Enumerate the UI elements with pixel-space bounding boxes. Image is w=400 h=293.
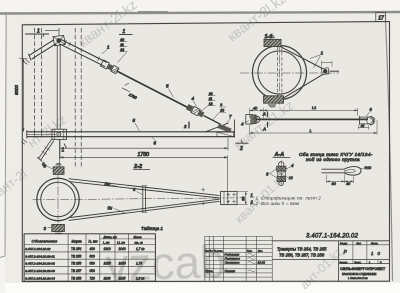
bolt axis [280, 161, 282, 186]
svg-text:1,8 кг: 1,8 кг [136, 276, 145, 280]
header sub split [100, 238, 156, 240]
bottom chord double line [69, 199, 220, 220]
svg-text:12: 12 [209, 102, 213, 106]
svg-text:2. Все швы h = 6мм: 2. Все швы h = 6мм [255, 201, 300, 206]
dim 40 under coupler [358, 127, 368, 129]
svg-text:ТВ 258: ТВ 258 [71, 276, 82, 280]
boom member [59, 40, 107, 67]
weld marks on chords [201, 188, 205, 206]
bottom clamp bolt [268, 105, 276, 107]
svg-text:Пров.: Пров. [205, 269, 213, 273]
traverse mid line [27, 133, 56, 135]
peak joint box [53, 35, 65, 45]
svg-text:Таблица 1: Таблица 1 [141, 226, 163, 231]
top chord double line [69, 179, 220, 198]
svg-text:90: 90 [242, 197, 246, 201]
apex mini dimension [322, 61, 333, 63]
svg-text:Норкин: Норкин [225, 269, 236, 273]
svg-text:Стадия: Стадия [340, 243, 347, 245]
svg-text:1135: 1135 [119, 276, 126, 280]
rod body [252, 118, 368, 120]
tie rod [117, 71, 187, 107]
svg-text:10: 10 [120, 38, 124, 42]
svg-text:3.407.1-164.20.02-04: 3.407.1-164.20.02-04 [25, 276, 55, 280]
svg-text:ной из одного прутка: ной из одного прутка [306, 156, 360, 162]
svg-text:530: 530 [90, 262, 96, 266]
svg-text:1060: 1060 [119, 262, 126, 266]
V band lower [283, 75, 323, 99]
ring outer circle [253, 46, 307, 100]
connector line from elevation [58, 140, 60, 167]
traverse top chord [27, 131, 235, 133]
svg-text:1,7 кг: 1,7 кг [136, 247, 145, 251]
svg-text:1. Спецификацию см. лист 2: 1. Спецификацию см. лист 2 [256, 195, 322, 200]
traverse bottom chord [27, 136, 235, 138]
knee brace [38, 139, 54, 160]
top clamp bolt [268, 36, 276, 37]
svg-text:А: А [262, 112, 266, 117]
svg-text:ТВ 256, ТВ 257, ТВ 258: ТВ 256, ТВ 257, ТВ 258 [279, 252, 325, 257]
brace end cap [37, 157, 42, 161]
vertical strut [57, 46, 60, 130]
eye loop [344, 167, 361, 176]
apex fitting [321, 68, 329, 75]
svg-text:1: 1 [251, 193, 253, 198]
svg-text:1: 1 [321, 51, 324, 57]
page number box [376, 13, 386, 22]
rod dimension tick [122, 83, 130, 92]
apex stub [330, 70, 340, 72]
top edge dark smudge [138, 11, 168, 14]
svg-text:Формат: Формат [340, 261, 348, 264]
eye bar top line [322, 168, 345, 170]
svg-text:Бланк: Бланк [355, 262, 361, 264]
svg-text:1108: 1108 [104, 276, 111, 280]
svg-text:г. Алма-Ата 2 км: г. Алма-Ата 2 км [348, 276, 368, 280]
eye bar bottom line [322, 172, 345, 174]
ring inner circle [41, 182, 75, 216]
svg-text:ТВ 255: ТВ 255 [71, 254, 82, 258]
svg-text:Обозначение: Обозначение [32, 239, 58, 243]
eye dims 80 40 [327, 180, 354, 182]
stadia list cells [339, 244, 390, 246]
svg-text:Масса: Масса [134, 235, 142, 239]
svg-text:5н: 5н [108, 206, 113, 211]
svg-text:9: 9 [220, 103, 222, 107]
svg-text:17: 17 [378, 16, 384, 22]
svg-text:400: 400 [90, 247, 96, 251]
apex plate [221, 191, 238, 204]
vertical centerline [57, 173, 59, 231]
main block outline [272, 240, 389, 242]
dim 90 right [237, 192, 248, 205]
bottom clamp block [264, 96, 284, 103]
svg-text:L1, мм: L1, мм [117, 240, 125, 244]
left clevis plate [246, 115, 253, 124]
svg-text:L: L [310, 128, 312, 133]
svg-text:ТВ 257: ТВ 257 [71, 269, 82, 273]
svg-text:R10: R10 [365, 166, 372, 170]
section line 1 right mark [119, 34, 133, 36]
svg-text:D, мм: D, мм [89, 239, 99, 243]
pole hidden edge left pair [34, 28, 36, 133]
svg-text:1780: 1780 [138, 152, 150, 158]
svg-text:Марка: Марка [72, 239, 82, 243]
svg-text:ТВ 256: ТВ 256 [71, 262, 82, 266]
svg-text:560: 560 [90, 269, 96, 273]
dimension line view 2-2 [60, 156, 228, 158]
left arm member [29, 40, 56, 59]
svg-text:L1: L1 [312, 106, 316, 110]
svg-text:3.407.1-164.20.02: 3.407.1-164.20.02 [306, 234, 359, 240]
svg-text:6000: 6000 [14, 85, 19, 95]
svg-text:12: 12 [289, 176, 293, 180]
svg-text:А: А [262, 127, 266, 132]
top dimension line 40 / L1 [250, 109, 358, 111]
vertical centerline [279, 41, 281, 105]
svg-text:Подп.: Подп. [247, 251, 253, 253]
page top edge [0, 12, 400, 14]
signature table grid [205, 236, 272, 277]
gusset at traverse tip [206, 120, 235, 138]
svg-text:2: 2 [239, 146, 243, 152]
bottom dimension L [250, 132, 378, 134]
bolt cross marks [227, 193, 236, 203]
left height dimension 6000 [22, 59, 24, 132]
pole hidden lines [277, 47, 282, 100]
table horizontals [24, 245, 155, 274]
lower coupling turnbuckle [186, 104, 205, 118]
svg-text:12: 12 [120, 48, 124, 52]
page right edge [386, 22, 393, 282]
left arm end cap [28, 54, 31, 61]
pole hidden edge right pair [74, 28, 76, 168]
table outer box [24, 234, 155, 281]
section 2 mark right [236, 142, 249, 144]
svg-text:тр., кг: тр., кг [135, 241, 144, 244]
traverse-pole joint [52, 129, 67, 139]
svg-text:20.02: 20.02 [257, 261, 266, 265]
svg-text:1310: 1310 [104, 247, 111, 251]
svg-text:Длина, мм: Длина, мм [103, 235, 117, 239]
vertical brace [143, 186, 146, 212]
svg-text:L, мм: L, мм [103, 240, 110, 244]
svg-text:Степанов: Степанов [225, 261, 240, 265]
svg-text:11: 11 [120, 43, 124, 47]
svg-text:№ докум.: № докум. [214, 250, 223, 253]
svg-text:Траверсы ТВ 254, ТВ 255: Траверсы ТВ 254, ТВ 255 [277, 247, 327, 252]
svg-text:500: 500 [90, 254, 96, 258]
rod lower end [204, 116, 221, 125]
svg-text:5т: 5т [105, 182, 111, 187]
svg-text:11: 11 [209, 97, 213, 101]
upper coupling hardware [100, 60, 119, 74]
table verticals [68, 234, 128, 281]
svg-text:1,76: 1,76 [136, 262, 142, 266]
svg-text:3.407.1-164.20.02-01: 3.407.1-164.20.02-01 [25, 254, 55, 258]
svg-text:40: 40 [361, 124, 365, 128]
top clamp block [53, 167, 64, 175]
svg-text:710: 710 [90, 276, 96, 280]
peak top projection line [45, 28, 59, 36]
bottom clamp block [52, 224, 65, 231]
horizontal centerline [33, 198, 244, 200]
svg-text:3.407.1-164.20.02: 3.407.1-164.20.02 [25, 247, 50, 251]
format row [353, 260, 378, 264]
svg-text:Лст: Лст [210, 251, 213, 253]
dimension 1780 main [60, 147, 228, 149]
svg-text:КАЗАХСКОЕ ОТДЕЛЕНИЕ: КАЗАХСКОЕ ОТДЕЛЕНИЕ [342, 272, 377, 276]
svg-text:3.407.1-164.20.02-03: 3.407.1-164.20.02-03 [25, 269, 55, 273]
svg-text:13: 13 [220, 108, 224, 112]
section 2 mark upper [188, 122, 190, 129]
svg-text:Лист: Лист [357, 243, 362, 245]
page left edge [0, 14, 6, 258]
bolt stack [279, 162, 284, 167]
section line 1 left mark [25, 33, 49, 35]
top clamp block [264, 39, 281, 46]
svg-text:2: 2 [183, 124, 187, 129]
svg-text:1: 1 [123, 29, 126, 35]
svg-text:1: 1 [37, 29, 40, 35]
horizontal centerline [240, 72, 339, 74]
svg-text:1040: 1040 [119, 247, 126, 251]
left nut hatched [251, 115, 256, 124]
rod end fitting [359, 116, 361, 125]
clevis eye [254, 116, 260, 122]
svg-text:10: 10 [209, 92, 213, 96]
boom segment ticks [64, 40, 99, 61]
ring outer circle [37, 178, 79, 220]
ring inner circle [258, 51, 301, 94]
svg-text:ТВ 254: ТВ 254 [71, 247, 82, 251]
section A-A cut marks [267, 112, 269, 128]
traverse left end cap [26, 130, 28, 138]
pole clamp ticks on traverse [35, 131, 42, 138]
V band upper [281, 47, 323, 69]
svg-text:СЕЛЬЭНЕРГОПРОЕКТ: СЕЛЬЭНЕРГОПРОЕКТ [340, 266, 386, 271]
peak bolt [56, 38, 61, 43]
svg-text:3.407.1-164.20.02-02: 3.407.1-164.20.02-02 [25, 262, 55, 266]
svg-text:1025: 1025 [104, 262, 111, 266]
svg-text:Листов: Листов [371, 243, 379, 245]
